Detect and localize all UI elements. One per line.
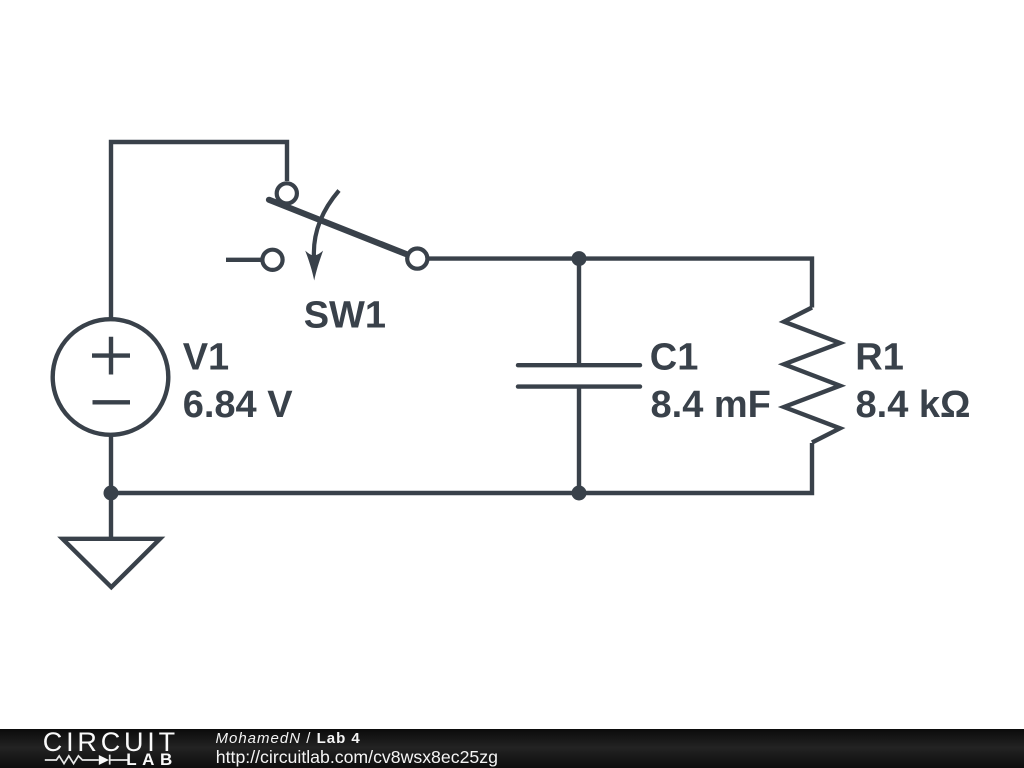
svg-text:V1: V1 bbox=[183, 337, 229, 379]
ground bbox=[63, 539, 161, 587]
blade bbox=[269, 200, 411, 256]
CircuitLab logo bbox=[40, 729, 200, 768]
footer bar bbox=[0, 729, 1024, 768]
logo resistor zigzag and lead bbox=[45, 754, 128, 764]
svg-text:8.4 kΩ: 8.4 kΩ bbox=[856, 384, 971, 426]
svg-text:SW1: SW1 bbox=[304, 295, 386, 337]
svg-text:R1: R1 bbox=[855, 337, 904, 379]
actuation arrow arc bbox=[314, 191, 339, 259]
wire: V1 bottom to ground bbox=[109, 435, 113, 539]
terminal top bbox=[277, 183, 297, 203]
footer line 1 bbox=[216, 731, 361, 746]
svg-text:6.84 V: 6.84 V bbox=[183, 384, 294, 426]
node: bottom junction dot bbox=[104, 486, 119, 501]
capacitor C1 plates bbox=[518, 365, 640, 386]
svg-text:C1: C1 bbox=[650, 337, 699, 379]
node: top junction dot bbox=[572, 251, 587, 266]
terminal lower-left bbox=[262, 250, 282, 270]
wire: bottom rail bbox=[111, 443, 812, 493]
arrow head bbox=[305, 251, 323, 281]
svg-text:LAB: LAB bbox=[126, 749, 178, 768]
logo diode triangle bbox=[99, 755, 109, 765]
wire: capacitor branch lower segment bbox=[577, 387, 581, 493]
resistor R1 zigzag bbox=[784, 308, 840, 443]
node: capacitor bottom junction dot bbox=[572, 486, 587, 501]
terminal right bbox=[407, 249, 427, 269]
wire: left stub of switch lower-left terminal bbox=[226, 258, 261, 262]
switch SW1 bbox=[262, 183, 427, 280]
labels bbox=[183, 295, 971, 427]
footer line 2 bbox=[216, 749, 498, 767]
svg-text:8.4 mF: 8.4 mF bbox=[651, 384, 771, 426]
wire: top-left from V1 top to switch top terminal bbox=[111, 142, 287, 319]
wire: switch right terminal to resistor top corner bbox=[429, 259, 812, 308]
voltage source V1 bbox=[53, 319, 169, 435]
wire: capacitor branch upper segment bbox=[577, 259, 581, 365]
